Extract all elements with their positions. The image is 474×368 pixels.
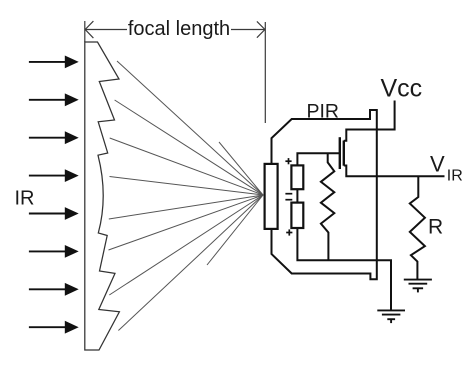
svg-text:R: R <box>428 216 443 239</box>
svg-text:PIR: PIR <box>307 101 340 123</box>
svg-text:focal length: focal length <box>128 18 230 40</box>
svg-text:IR: IR <box>15 187 35 209</box>
svg-text:Vcc: Vcc <box>381 75 423 103</box>
svg-text:V: V <box>430 152 445 177</box>
svg-text:IR: IR <box>447 168 463 185</box>
